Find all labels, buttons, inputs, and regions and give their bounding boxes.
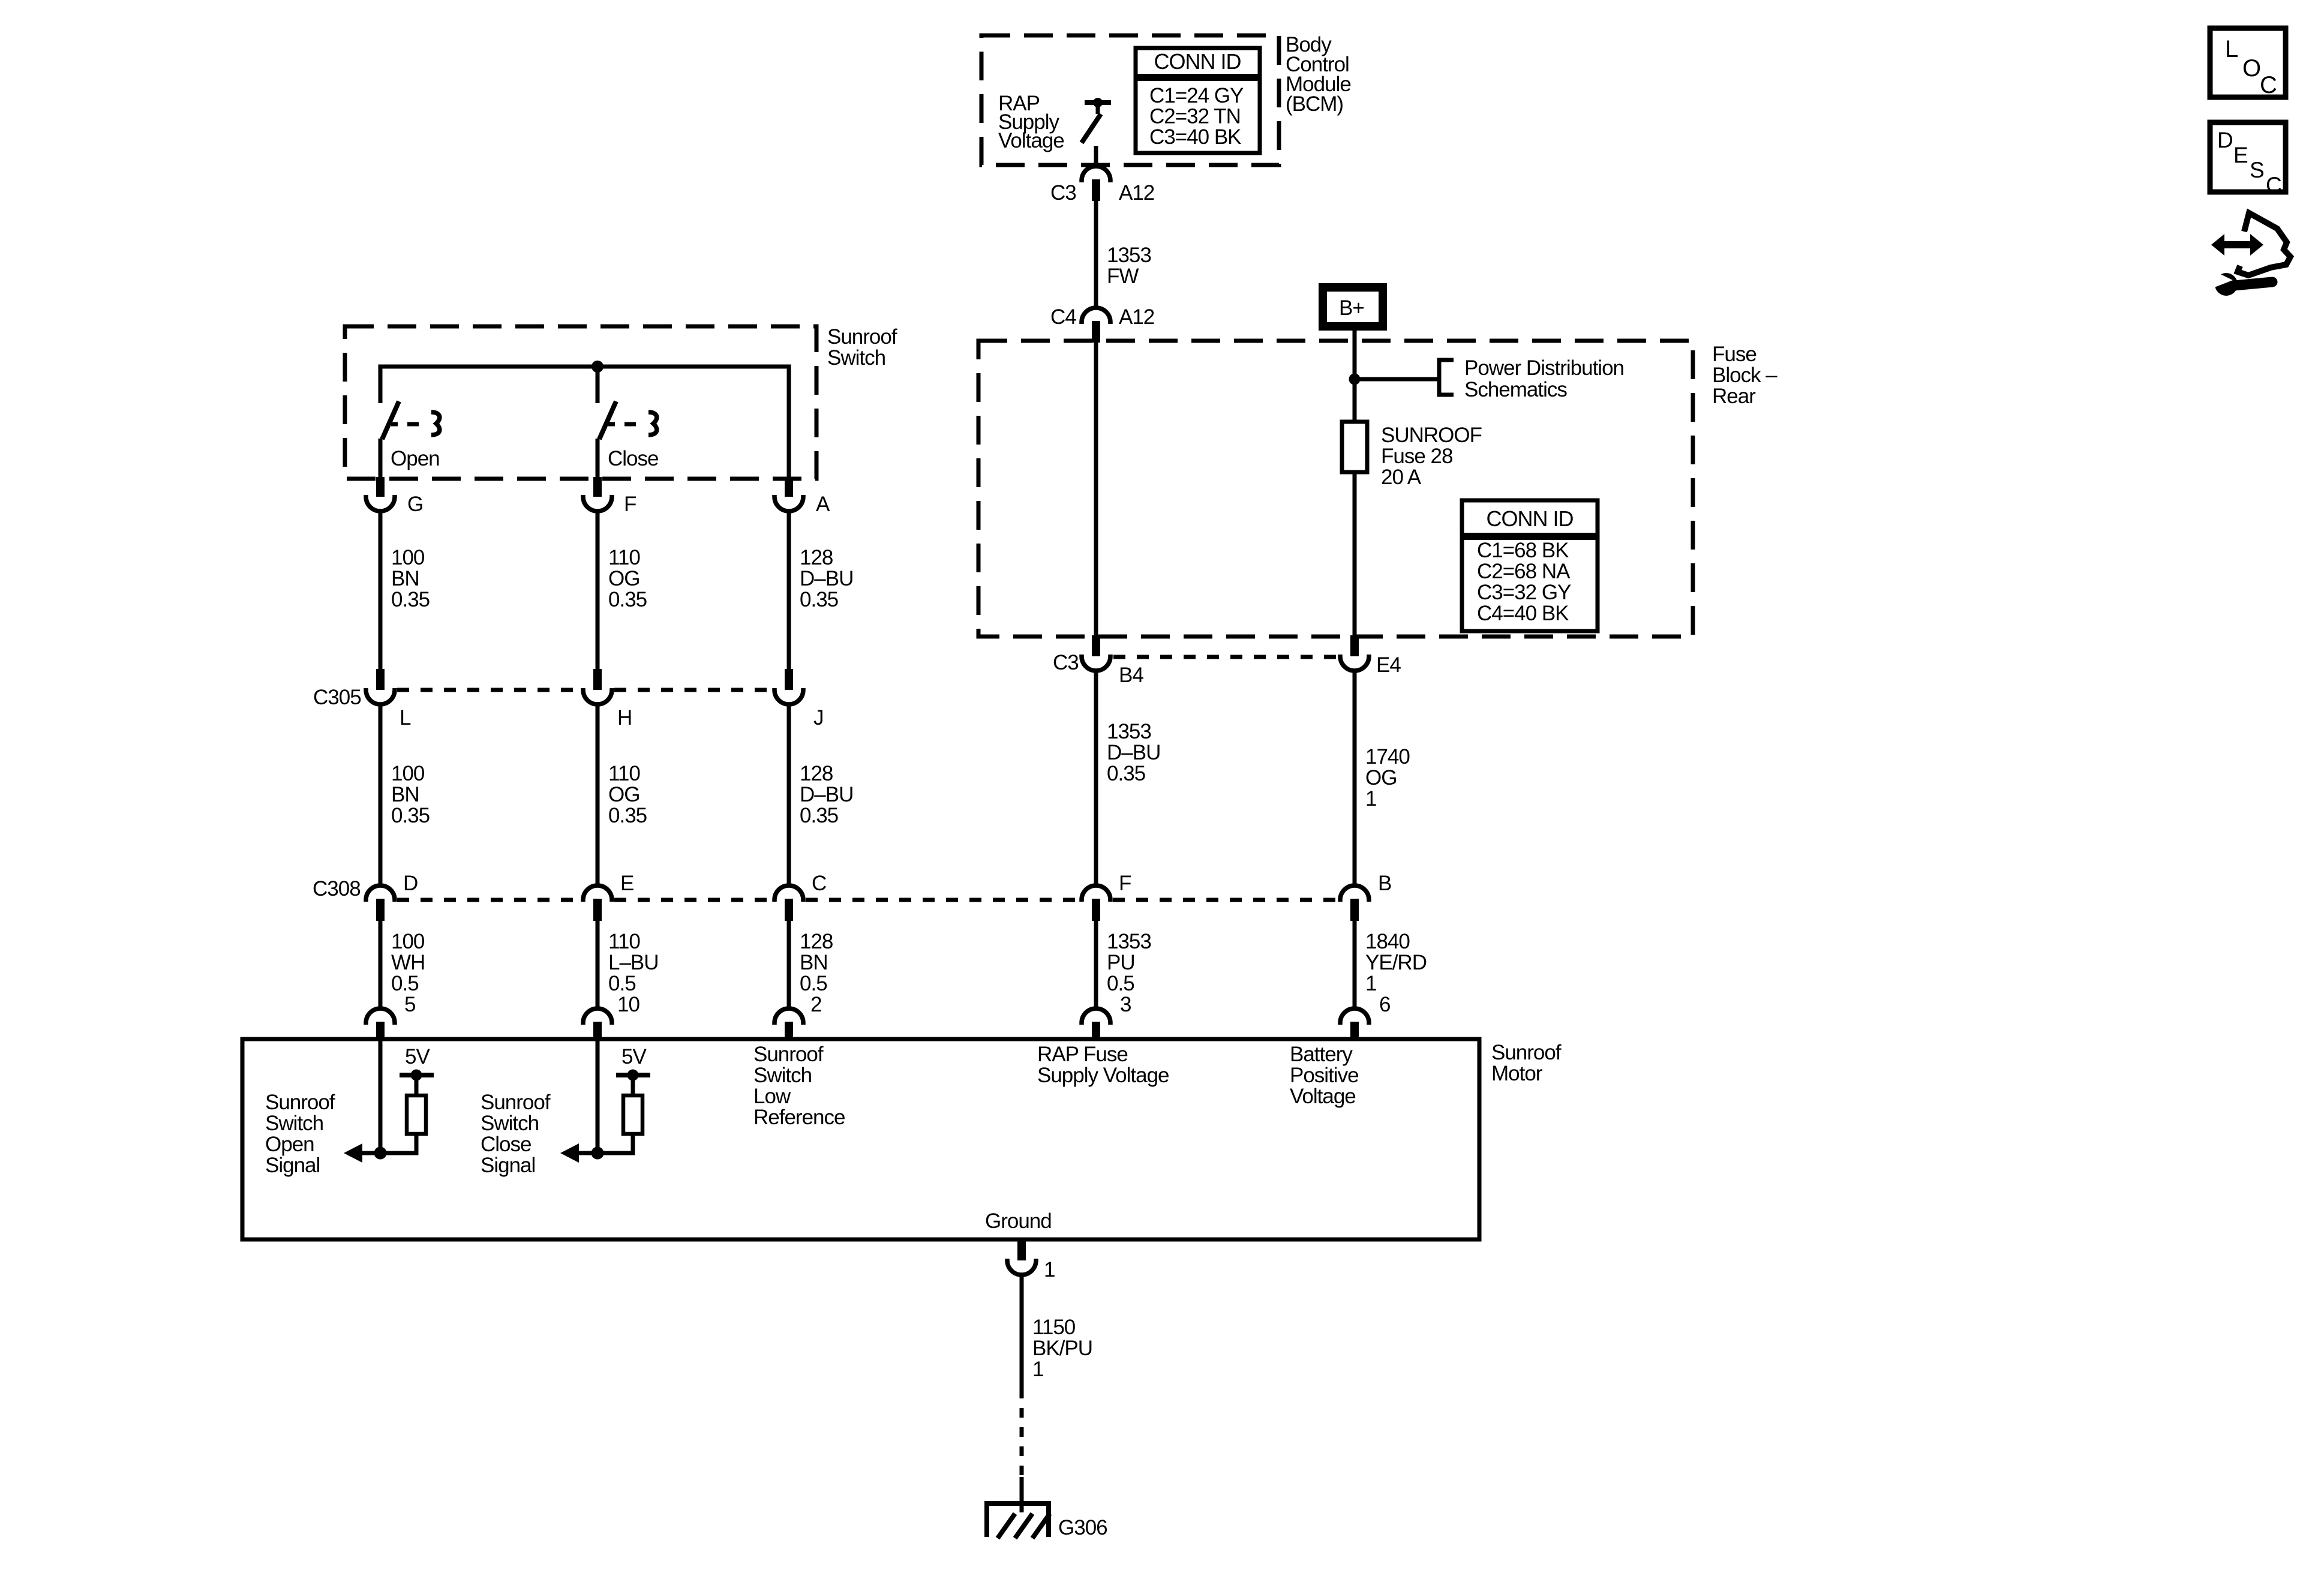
wire 1353 FW — [1094, 201, 1098, 308]
connector pin 3 (sunroof motor) — [1082, 1008, 1110, 1025]
svg-text:Signal: Signal — [265, 1154, 320, 1177]
svg-text:110: 110 — [608, 546, 640, 569]
switch SW1 RAP output driver inside BCM — [1085, 100, 1111, 105]
svg-text:Open: Open — [391, 447, 440, 470]
connector C305 pin H — [593, 669, 602, 690]
svg-text:PU: PU — [1107, 951, 1135, 974]
svg-text:G306: G306 — [1058, 1516, 1107, 1539]
svg-text:E4: E4 — [1376, 653, 1401, 677]
svg-text:Motor: Motor — [1491, 1062, 1543, 1085]
svg-text:C4=40 BK: C4=40 BK — [1477, 602, 1569, 625]
svg-text:C2=32 TN: C2=32 TN — [1149, 105, 1241, 128]
svg-text:0.35: 0.35 — [800, 804, 838, 827]
wire 1353 PU 0.5 — [1094, 921, 1098, 1009]
arrow open signal — [344, 1143, 362, 1163]
wire 100 BN 0.35 lower — [379, 704, 383, 886]
svg-text:E: E — [2233, 143, 2248, 167]
svg-text:1: 1 — [1032, 1358, 1043, 1381]
svg-text:D–BU: D–BU — [800, 567, 853, 590]
svg-text:OG: OG — [608, 783, 639, 806]
svg-text:B4: B4 — [1119, 664, 1143, 687]
connector row dashed line C3/E4 — [1113, 655, 1338, 659]
svg-text:D–BU: D–BU — [800, 783, 853, 806]
svg-text:Sunroof: Sunroof — [753, 1043, 824, 1066]
linkage dashes Close — [608, 422, 615, 427]
dashed box: Fuse Block - Rear — [978, 341, 1693, 637]
svg-text:5V: 5V — [405, 1045, 430, 1068]
svg-text:OG: OG — [608, 567, 639, 590]
svg-text:BK/PU: BK/PU — [1032, 1337, 1092, 1360]
wire tap to power distribution reference — [1355, 377, 1439, 382]
icon component location arrow — [2221, 241, 2253, 248]
junction dot power distribution tap — [1349, 374, 1361, 385]
wire 1353 D-BU 0.35 — [1094, 671, 1098, 886]
resistor R2 pull-up close signal — [623, 1095, 642, 1134]
svg-text:Fuse: Fuse — [1712, 343, 1756, 366]
svg-text:WH: WH — [391, 951, 425, 974]
wire 1150 BK/PU 1 solid — [1020, 1275, 1024, 1389]
svg-text:C308: C308 — [313, 877, 361, 900]
svg-text:L: L — [400, 706, 411, 730]
wire B+ into fuse block — [1353, 331, 1357, 382]
linkage dashes Open — [391, 422, 398, 427]
icon DESC box — [2210, 122, 2286, 192]
svg-text:E: E — [620, 872, 633, 895]
connector F (sunroof switch) — [593, 477, 602, 497]
connector G (sunroof switch) — [376, 477, 385, 497]
svg-text:F: F — [624, 493, 636, 516]
svg-text:0.35: 0.35 — [608, 804, 647, 827]
connector row dashed line C308 segment 4 — [1113, 898, 1338, 902]
svg-text:C3=40 BK: C3=40 BK — [1149, 125, 1241, 149]
connector E4 (fuse block bottom) — [1350, 635, 1359, 656]
svg-text:D: D — [403, 872, 418, 895]
wire below Open switch — [379, 439, 383, 479]
svg-text:0.5: 0.5 — [608, 972, 636, 995]
connector row dashed line C308 segment 2 — [614, 898, 772, 902]
svg-text:S: S — [2250, 158, 2264, 182]
svg-text:Power Distribution: Power Distribution — [1464, 356, 1624, 380]
svg-text:YE/RD: YE/RD — [1365, 951, 1427, 974]
connector pin 5 (sunroof motor) — [366, 1008, 395, 1025]
svg-text:Open: Open — [265, 1133, 314, 1156]
wire 110 OG 0.35 upper — [596, 511, 600, 670]
svg-text:Switch: Switch — [753, 1064, 812, 1087]
wire fuse to connector E4 — [1353, 472, 1357, 637]
svg-text:Sunroof: Sunroof — [481, 1091, 551, 1114]
wire into ground — [1020, 1477, 1024, 1512]
wire 128 D-BU 0.35 lower — [787, 704, 791, 886]
svg-text:0.5: 0.5 — [391, 972, 419, 995]
svg-text:SUNROOF: SUNROOF — [1381, 424, 1482, 447]
svg-text:D–BU: D–BU — [1107, 741, 1160, 764]
svg-text:0.35: 0.35 — [608, 588, 647, 611]
svg-text:C3: C3 — [1053, 651, 1079, 674]
svg-text:Switch: Switch — [265, 1112, 323, 1135]
svg-text:128: 128 — [800, 930, 833, 953]
wire 128 BN 0.5 — [787, 921, 791, 1009]
svg-text:C3=32 GY: C3=32 GY — [1477, 581, 1571, 604]
svg-text:C4: C4 — [1050, 305, 1076, 329]
svg-text:1150: 1150 — [1032, 1316, 1076, 1339]
connector C308 pin D — [366, 885, 395, 902]
connector C4 pin A12 (Fuse Block) — [1082, 308, 1110, 324]
svg-text:0.5: 0.5 — [800, 972, 827, 995]
svg-text:128: 128 — [800, 546, 833, 569]
dashed box: Sunroof Switch — [345, 326, 816, 479]
svg-text:Reference: Reference — [753, 1106, 845, 1129]
svg-text:Battery: Battery — [1290, 1043, 1353, 1066]
wire close signal to arrow — [577, 1151, 597, 1155]
connector C308 pin C — [774, 885, 803, 902]
svg-text:2: 2 — [810, 993, 821, 1016]
svg-text:0.5: 0.5 — [1107, 972, 1134, 995]
icon body panel outline — [2238, 213, 2290, 275]
svg-text:Positive: Positive — [1290, 1064, 1359, 1087]
svg-text:O: O — [2242, 55, 2260, 82]
svg-text:1353: 1353 — [1107, 244, 1151, 267]
svg-text:Voltage: Voltage — [1290, 1085, 1356, 1108]
connector A (sunroof switch) — [785, 477, 793, 497]
svg-text:0.35: 0.35 — [1107, 762, 1145, 785]
svg-text:G: G — [407, 493, 423, 516]
wire 1840 YE/RD 1 — [1353, 921, 1357, 1009]
svg-text:Sunroof: Sunroof — [1491, 1041, 1562, 1064]
svg-text:1: 1 — [1365, 787, 1376, 810]
svg-text:Supply Voltage: Supply Voltage — [1037, 1064, 1169, 1087]
svg-text:C: C — [2260, 72, 2277, 98]
switch Close blade — [599, 401, 616, 439]
svg-text:3: 3 — [1120, 993, 1131, 1016]
connector C308 pin F — [1082, 885, 1110, 902]
svg-text:H: H — [617, 706, 632, 730]
svg-text:110: 110 — [608, 762, 640, 785]
svg-text:110: 110 — [608, 930, 640, 953]
wire from BCM switch to connector C3 — [1094, 146, 1098, 167]
connector row dashed line C305 segment 2 — [614, 688, 772, 692]
svg-text:C: C — [812, 872, 826, 895]
svg-text:CONN ID: CONN ID — [1487, 506, 1574, 531]
svg-text:20 A: 20 A — [1381, 466, 1422, 489]
connector C308 pin B — [1340, 885, 1369, 902]
wire 100 BN 0.35 upper — [379, 511, 383, 670]
svg-text:Switch: Switch — [481, 1112, 539, 1135]
svg-text:10: 10 — [617, 993, 639, 1016]
svg-text:F: F — [1119, 872, 1131, 895]
5V supply bar left — [400, 1073, 434, 1077]
connector C3 pin B4 (fuse block bottom) — [1092, 635, 1100, 656]
wire 110 OG 0.35 lower — [596, 704, 600, 886]
svg-text:5: 5 — [404, 993, 415, 1016]
svg-text:BN: BN — [391, 567, 419, 590]
svg-text:Sunroof: Sunroof — [265, 1091, 335, 1114]
svg-text:A12: A12 — [1119, 181, 1154, 205]
connector row dashed line C308 segment 3 — [806, 898, 1079, 902]
detent symbol Open — [431, 412, 440, 435]
svg-text:0.35: 0.35 — [800, 588, 838, 611]
svg-text:Close: Close — [608, 447, 658, 470]
Fuse block CONN ID table — [1462, 500, 1598, 631]
connector C305 pin J — [785, 669, 793, 690]
arrow close signal — [560, 1143, 579, 1163]
svg-text:A12: A12 — [1119, 305, 1154, 329]
wire bus inside sunroof switch — [380, 367, 789, 479]
connector C305 pin L — [376, 669, 385, 690]
svg-text:100: 100 — [391, 546, 425, 569]
wire close switch stem — [596, 367, 600, 403]
BCM CONN ID table — [1136, 48, 1260, 153]
svg-text:Switch: Switch — [827, 346, 885, 370]
wire pin 10 internal — [596, 1039, 600, 1153]
fuse F28 SUNROOF 20A — [1342, 422, 1367, 472]
svg-text:100: 100 — [391, 762, 425, 785]
svg-text:CONN ID: CONN ID — [1154, 49, 1241, 74]
svg-text:C: C — [2266, 173, 2281, 197]
connector pin 1 ground (sunroof motor) — [1017, 1239, 1026, 1260]
svg-text:0.35: 0.35 — [391, 588, 430, 611]
wire 1740 OG 1 — [1353, 671, 1357, 886]
wire RAP bus through fuse block — [1094, 343, 1098, 637]
svg-text:C1=68 BK: C1=68 BK — [1477, 539, 1569, 562]
bracket off-page reference — [1439, 360, 1454, 395]
wire open signal to arrow — [360, 1151, 380, 1155]
connector row dashed line C305 segment 1 — [397, 688, 581, 692]
svg-text:B: B — [1378, 872, 1391, 895]
svg-text:RAP Fuse: RAP Fuse — [1037, 1043, 1128, 1066]
ground G306 — [984, 1501, 1051, 1506]
svg-text:C2=68 NA: C2=68 NA — [1477, 560, 1571, 583]
switch Open blade — [382, 401, 399, 439]
connector C308 pin E — [583, 885, 612, 902]
svg-text:Schematics: Schematics — [1464, 378, 1567, 401]
svg-text:1353: 1353 — [1107, 720, 1151, 743]
svg-text:C305: C305 — [313, 686, 361, 709]
svg-text:1: 1 — [1365, 972, 1376, 995]
svg-text:0.35: 0.35 — [391, 804, 430, 827]
resistor R1 pull-up open signal — [407, 1095, 426, 1134]
wire resistor R2 to close signal node — [580, 1134, 633, 1153]
svg-text:Close: Close — [481, 1133, 531, 1156]
svg-text:Low: Low — [753, 1085, 791, 1108]
wire 100 WH 0.5 — [379, 921, 383, 1009]
wire resistor R1 to open signal node — [362, 1134, 416, 1153]
connector C3 pin A12 (BCM) — [1082, 166, 1110, 182]
svg-text:6: 6 — [1379, 993, 1390, 1016]
wire below Close switch — [596, 439, 600, 479]
connector row dashed line C308 segment 1 — [397, 898, 581, 902]
svg-text:Block –: Block – — [1712, 364, 1777, 387]
svg-text:L–BU: L–BU — [608, 951, 659, 974]
svg-text:1740: 1740 — [1365, 745, 1410, 769]
wire 1150 BK/PU dashed continuation — [1020, 1389, 1024, 1477]
svg-text:1353: 1353 — [1107, 930, 1151, 953]
svg-text:D: D — [2217, 128, 2233, 152]
svg-text:L: L — [2225, 36, 2238, 62]
svg-text:1: 1 — [1044, 1258, 1055, 1281]
detent symbol Close — [648, 412, 657, 435]
dashed box: Body Control Module (BCM) — [981, 35, 1279, 165]
junction dot close switch feed — [591, 361, 603, 373]
svg-text:128: 128 — [800, 762, 833, 785]
svg-text:5V: 5V — [621, 1045, 647, 1068]
wire 110 L-BU 0.5 — [596, 921, 600, 1009]
junction dot close signal — [591, 1147, 604, 1160]
B+ power symbol — [1323, 287, 1383, 326]
svg-text:Rear: Rear — [1712, 385, 1756, 408]
connector pin 6 (sunroof motor) — [1340, 1008, 1369, 1025]
junction dot open signal — [374, 1147, 387, 1160]
svg-text:100: 100 — [391, 930, 425, 953]
wire 128 D-BU 0.35 upper — [787, 511, 791, 670]
connector pin 10 (sunroof motor) — [583, 1008, 612, 1025]
svg-text:BN: BN — [391, 783, 419, 806]
svg-text:FW: FW — [1107, 265, 1139, 288]
wire fuse feed down to fuse — [1353, 379, 1357, 422]
svg-text:OG: OG — [1365, 766, 1397, 789]
svg-text:J: J — [813, 706, 824, 730]
5V supply bar right — [616, 1073, 650, 1077]
svg-text:A: A — [816, 493, 830, 516]
wire pin 5 internal — [379, 1039, 383, 1153]
svg-text:Ground: Ground — [985, 1209, 1052, 1233]
box Sunroof Motor — [242, 1039, 1479, 1239]
svg-text:Signal: Signal — [481, 1154, 535, 1177]
connector pin 2 (sunroof motor) — [774, 1008, 803, 1025]
icon LOC box — [2210, 28, 2286, 97]
svg-text:Voltage: Voltage — [998, 129, 1064, 152]
svg-text:Fuse 28: Fuse 28 — [1381, 445, 1452, 468]
svg-text:C1=24 GY: C1=24 GY — [1149, 84, 1244, 107]
svg-text:B+: B+ — [1339, 296, 1364, 320]
icon wrench — [2215, 273, 2238, 296]
svg-text:BN: BN — [800, 951, 828, 974]
svg-text:1840: 1840 — [1365, 930, 1410, 953]
svg-text:C3: C3 — [1050, 181, 1076, 205]
svg-text:(BCM): (BCM) — [1286, 92, 1343, 116]
svg-text:Sunroof: Sunroof — [827, 325, 897, 349]
